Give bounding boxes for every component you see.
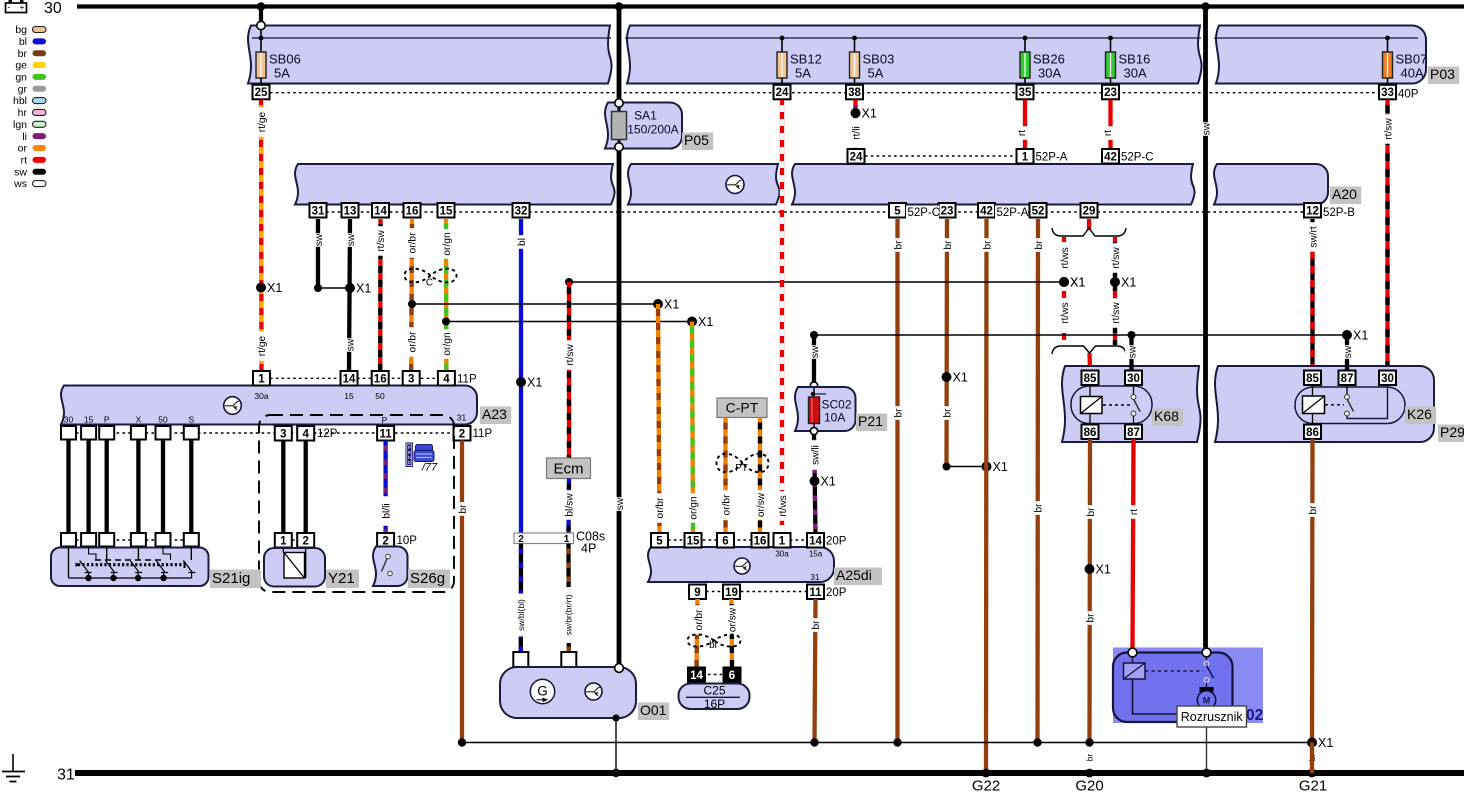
clock icon on A20 [726, 176, 744, 194]
svg-text:23: 23 [1104, 87, 1117, 99]
svg-text:br: br [982, 240, 993, 250]
svg-text:br: br [1308, 505, 1319, 515]
relay K68 coil [1081, 397, 1103, 414]
pin 4 of A23 12P [297, 426, 314, 441]
pin 24 of P03 [774, 85, 791, 100]
node junction rail30/SA1 [615, 2, 624, 11]
wire rt/li SB03 to A20 pin24 [853, 100, 857, 149]
wire br A20 pin5 [895, 219, 899, 743]
svg-text:87: 87 [1127, 427, 1140, 439]
svg-text:X1: X1 [1121, 276, 1136, 290]
pin of S21ig [156, 533, 171, 547]
wire rt/sw pin29 branch [1113, 237, 1117, 345]
svg-text:or/gn: or/gn [442, 232, 453, 255]
svg-text:or/br: or/br [408, 232, 419, 254]
pin 24 of A20 52P-A [848, 149, 865, 164]
svg-text:or/gn: or/gn [689, 496, 700, 519]
svg-text:rt: rt [1129, 509, 1140, 515]
svg-text:31: 31 [57, 767, 75, 784]
A25di bottom pin leader [706, 591, 807, 593]
svg-text:rt/sw: rt/sw [1111, 247, 1122, 269]
svg-text:sw/br(br/rt): sw/br(br/rt) [564, 594, 574, 635]
fuse box P03 band segment 3 [1216, 26, 1426, 84]
node junction br A23 pin2 [458, 738, 466, 746]
label K26 [1405, 407, 1436, 425]
C25 pin leader [708, 674, 722, 676]
pin of S21ig [99, 533, 114, 547]
pin 6 of A25di top [717, 533, 734, 548]
svg-text:sw: sw [314, 233, 325, 246]
node junction pin23 wire end [943, 463, 951, 471]
svg-text:SB12: SB12 [790, 52, 822, 67]
label P05 [682, 133, 713, 151]
node junction G20 on rail31 [1085, 769, 1094, 778]
svg-text:1: 1 [280, 535, 287, 547]
svg-text:X1: X1 [356, 282, 371, 296]
svg-text:bl: bl [517, 238, 528, 246]
svg-text:20P: 20P [826, 536, 847, 548]
svg-text:sw/li: sw/li [810, 445, 821, 465]
pin 16 of A23 top [372, 371, 389, 386]
svg-text:sw: sw [810, 345, 821, 358]
wire starter to rail31 [1206, 722, 1208, 773]
wire rt/ws SB12 pin24 to A25di pin1 [780, 100, 784, 533]
Y21 pin leader [292, 539, 297, 541]
svg-text:14: 14 [343, 373, 356, 385]
svg-text:30: 30 [1381, 373, 1394, 385]
svg-text:14: 14 [809, 535, 822, 547]
pin 2 of S26g 10P [377, 533, 394, 548]
label P29 [1438, 425, 1464, 443]
label C-PT [717, 398, 767, 418]
svg-text:30A: 30A [1038, 66, 1061, 81]
svg-text:9: 9 [694, 587, 700, 599]
svg-text:Y21: Y21 [328, 570, 355, 587]
svg-text:32: 32 [515, 205, 528, 217]
svg-text:C25: C25 [703, 684, 725, 698]
pin 3 of A23 12P [275, 426, 292, 441]
relay K26 coil [1303, 396, 1325, 414]
pin 86 of K68 [1082, 425, 1099, 440]
pin 19 of A25di bottom [723, 585, 740, 600]
wire or/br A25di pin9 to C25 [697, 599, 698, 668]
fuse SB07 40A [1385, 36, 1390, 41]
svg-text:52P-A: 52P-A [997, 207, 1029, 219]
svg-text:24: 24 [850, 151, 863, 163]
svg-text:52P-B: 52P-B [1323, 207, 1355, 219]
svg-text:150/200A: 150/200A [627, 123, 678, 137]
svg-text:bg: bg [15, 24, 27, 36]
connector band A20 segment 1 [295, 164, 615, 205]
svg-text:X1: X1 [267, 281, 282, 295]
wire or/br C-PT to A25di pin6 [723, 418, 727, 534]
node X1 on K68 pin86 wire [1085, 564, 1095, 574]
label A23 [480, 407, 511, 425]
pin 5 of A25di top [651, 533, 668, 548]
wire ground link y742 [462, 742, 1312, 744]
svg-text:rt/sw: rt/sw [1383, 118, 1394, 140]
wire br A23 pin2 to ground link [460, 441, 464, 743]
S21ig pin row leader [76, 539, 185, 541]
svg-text:S26g: S26g [410, 570, 445, 587]
svg-text:rt/ws: rt/ws [1060, 302, 1071, 324]
svg-text:40A: 40A [1401, 66, 1424, 81]
clock icon on A23 [224, 397, 242, 415]
node junction br A20 pin5 [893, 738, 901, 746]
node junction rail30/starter [1201, 2, 1210, 11]
svg-text:P21: P21 [858, 413, 883, 429]
node X1 on sw/li wire [810, 476, 820, 486]
svg-text:2: 2 [382, 535, 388, 547]
svg-text:br: br [1034, 503, 1045, 513]
A23 bottom pin row leader [76, 432, 455, 434]
svg-text:or/br: or/br [655, 497, 666, 519]
svg-text:52P-A: 52P-A [1036, 152, 1068, 164]
svg-text:X1: X1 [1096, 563, 1111, 577]
fuse box P03 band segment 2 [627, 26, 1202, 84]
pin 32 of A20 [513, 203, 530, 218]
svg-text:10A: 10A [824, 411, 845, 425]
pin 1 of A23 top [253, 371, 270, 386]
wire stub rail30 to P03 [259, 7, 263, 23]
svg-text:/77: /77 [421, 462, 438, 474]
svg-text:rt/ws: rt/ws [1060, 247, 1071, 269]
label O01 [638, 703, 669, 721]
node junction SC02 sw wire [810, 331, 818, 339]
svg-text:sw: sw [1127, 345, 1138, 358]
fuse SB16 30A [1108, 36, 1113, 41]
wire rt/sw A20 pin14 to A23 pin16 [378, 219, 383, 371]
alternator O01 [500, 667, 636, 718]
svg-text:33: 33 [1381, 87, 1394, 99]
svg-text:15: 15 [687, 535, 700, 547]
svg-text:X: X [136, 415, 142, 425]
svg-text:4: 4 [443, 373, 450, 385]
wire br to G21 [1310, 743, 1314, 774]
svg-text:16P: 16P [704, 697, 725, 711]
solenoid valve Y21 [264, 548, 325, 587]
starter motor M02 [1113, 653, 1233, 723]
wire or/br X1 to A25di pin5 [658, 304, 660, 533]
pin 85 of K68 [1082, 371, 1099, 386]
svg-text:br: br [943, 408, 954, 418]
wire or/gn X1 to A25di pin15 [692, 322, 693, 534]
wire link pin31 to pin13 wire [318, 287, 350, 289]
pin 31 of A20 [310, 203, 327, 218]
svg-text:+: + [20, 2, 25, 12]
pin 2 of Y21 [297, 533, 314, 548]
connector band A20 segment 3 [792, 164, 1195, 205]
svg-text:br: br [1034, 240, 1045, 250]
svg-text:2: 2 [518, 534, 524, 545]
svg-text:52: 52 [1032, 205, 1045, 217]
svg-text:P: P [382, 415, 388, 425]
svg-text:42: 42 [980, 205, 993, 217]
svg-text:C: C [426, 278, 433, 289]
battery symbol [6, 1, 27, 12]
svg-text:11: 11 [380, 428, 393, 440]
svg-text:sw/bl(bl): sw/bl(bl) [516, 599, 526, 631]
wire rt SB16 to A20 pin42 [1108, 100, 1112, 149]
fuse SB06 5A [259, 36, 264, 41]
pin 6 of C25 [724, 668, 741, 683]
relay carrier band K68 [1062, 366, 1201, 442]
svg-text:3: 3 [280, 428, 286, 440]
svg-text:30a: 30a [254, 391, 268, 401]
relay carrier band P29 [1215, 366, 1434, 442]
wire rt/ge P03 pin25 to A23 pin1 [259, 100, 264, 371]
svg-text:4: 4 [302, 428, 309, 440]
svg-text:X1: X1 [1070, 276, 1085, 290]
node terminal 30 on P03 [257, 21, 265, 29]
node X1 end of y282 link [1059, 277, 1069, 287]
wire link y335 SC02 to K68/K26 [814, 334, 1347, 336]
pin 2 of A23 11P [454, 426, 471, 441]
connector band A20 segment 4 [1214, 164, 1328, 205]
svg-text:19: 19 [725, 587, 738, 599]
starter contact [1145, 670, 1203, 672]
svg-text:02: 02 [1246, 707, 1263, 724]
svg-text:11P: 11P [473, 428, 493, 440]
svg-text:11: 11 [809, 587, 822, 599]
svg-text:87: 87 [1341, 373, 1354, 385]
svg-text:SB06: SB06 [269, 52, 301, 67]
pin 4 of A23 top [438, 371, 455, 386]
svg-text:O01: O01 [640, 702, 667, 718]
svg-text:X1: X1 [1318, 736, 1333, 750]
pin 3 of A23 top [403, 371, 420, 386]
node X1 end of ground link [1307, 738, 1317, 748]
node starter B+ terminal [1202, 648, 1211, 657]
svg-text:5: 5 [894, 205, 901, 217]
svg-text:or/br: or/br [721, 494, 732, 516]
wire rail 30 [77, 4, 1464, 8]
node junction or/br wire [408, 300, 416, 308]
svg-text:sw: sw [345, 338, 356, 351]
svg-text:or/sw: or/sw [756, 492, 767, 517]
svg-text:sw: sw [1343, 345, 1354, 358]
node X1 on bl wire [516, 377, 526, 387]
svg-text:12: 12 [1306, 205, 1319, 217]
svg-text:br: br [1086, 613, 1097, 623]
pin 14 of A23 top [341, 371, 358, 386]
pin of S21ig [61, 533, 76, 547]
wire br K68 pin86 to ground [1087, 439, 1092, 743]
wiring group dashed outline [259, 415, 454, 592]
svg-text:2: 2 [459, 428, 465, 440]
fuse SB12 5A [780, 36, 785, 41]
svg-text:br: br [893, 240, 904, 250]
svg-text:sw/rt: sw/rt [1308, 226, 1319, 248]
svg-text:X1: X1 [1353, 329, 1368, 343]
pin 16 of A20 [404, 203, 421, 218]
pin of S21ig [131, 533, 146, 547]
svg-text:rt/li: rt/li [851, 126, 862, 140]
svg-text:86: 86 [1084, 427, 1097, 439]
svg-text:10P: 10P [397, 535, 418, 547]
twisted pair symbol C [405, 269, 457, 283]
svg-text:ws: ws [13, 178, 27, 190]
svg-text:sw: sw [615, 497, 626, 510]
svg-text:P29: P29 [1440, 424, 1464, 440]
pin 35 of P03 [1017, 85, 1034, 100]
pin 11 of A23 [377, 426, 394, 441]
pin 87 of K26 [1339, 371, 1356, 386]
svg-text:23: 23 [941, 205, 954, 217]
svg-text:1: 1 [779, 535, 786, 547]
svg-text:sw: sw [14, 166, 27, 178]
svg-text:Rozrusznik: Rozrusznik [1181, 710, 1244, 724]
wire rt SB26 to A20 pin1 [1023, 100, 1027, 149]
svg-text:X1: X1 [527, 376, 542, 390]
svg-text:X1: X1 [953, 371, 968, 385]
svg-text:24: 24 [776, 87, 789, 99]
svg-text:30: 30 [64, 415, 74, 425]
svg-text:lgn: lgn [13, 119, 27, 131]
svg-text:or/br: or/br [407, 331, 418, 353]
svg-text:1: 1 [1022, 151, 1029, 163]
connector band A20 segment 2 [628, 164, 780, 205]
wire sw SA1 to O01 B+ [617, 147, 622, 668]
clock icon on O01 [585, 683, 602, 700]
node junction br A20 pin52 [1033, 738, 1041, 746]
svg-text:86: 86 [1306, 427, 1319, 439]
pin 87 of K68 [1125, 425, 1142, 440]
pin of A23 bottom (ignition) [184, 426, 199, 440]
svg-text:bl: bl [709, 640, 717, 651]
svg-text:ge: ge [15, 60, 27, 72]
pin 42 of A20 52P-C [1102, 149, 1119, 164]
generator symbol G [530, 679, 554, 703]
pin 30 of K26 [1379, 371, 1396, 386]
node X1 on rt/ws branch [1059, 277, 1069, 287]
svg-text:11P: 11P [457, 374, 477, 386]
wire rt K68 pin87 to starter [1133, 439, 1134, 649]
node junction rt/sw Ecm wire [565, 278, 573, 286]
pin 42 of A20 [978, 203, 995, 218]
svg-text:SB16: SB16 [1119, 52, 1151, 67]
node junction br A25di pin11 [810, 738, 818, 746]
label K68 [1152, 409, 1183, 427]
pin of A23 bottom (ignition) [156, 426, 171, 440]
wire sw/rt A20 pin12 to K26 pin85 [1310, 219, 1314, 371]
svg-text:br: br [18, 48, 28, 60]
pin 52 of A20 [1030, 203, 1047, 218]
node SC02 top terminal [810, 382, 817, 389]
wire br A20 pin52 [1035, 219, 1040, 743]
pin 9 of A25di bottom [689, 585, 706, 600]
svg-text:31: 31 [811, 573, 820, 582]
svg-text:P03: P03 [1430, 66, 1455, 82]
svg-text:15: 15 [344, 391, 354, 401]
svg-text:X1: X1 [664, 298, 679, 312]
svg-text:Ecm: Ecm [554, 461, 584, 478]
wire br A20 pin23 [944, 219, 949, 467]
svg-text:rt/ge: rt/ge [257, 335, 268, 356]
node SA1 bottom [615, 143, 623, 151]
A20 top pin leader [865, 155, 1016, 157]
wire sw A23 pin3 to Y21 pin1 [281, 441, 285, 534]
svg-text:PT: PT [735, 463, 748, 474]
pin of A23 bottom (ignition) [81, 426, 96, 440]
node SC02 bottom terminal [810, 427, 817, 434]
P03 pin leader dotted line [270, 92, 1379, 94]
svg-text:A23: A23 [482, 406, 507, 422]
svg-text:SB07: SB07 [1396, 52, 1428, 67]
pin 38 of P03 [846, 85, 863, 100]
node junction G21 on rail31 [1308, 769, 1317, 778]
cable sheath split under pin29 [1052, 228, 1126, 236]
pin 1 of A20 52P-A [1017, 149, 1034, 164]
svg-text:15: 15 [440, 205, 453, 217]
svg-text:15: 15 [84, 415, 94, 425]
wire br A25di pin11 to ground link [815, 599, 816, 743]
ignition switch S21ig [51, 548, 209, 587]
wire or/gn A20 pin15 to A23 pin4 [444, 219, 449, 371]
svg-text:50: 50 [158, 415, 168, 425]
svg-text:rt: rt [1017, 130, 1028, 136]
svg-text:bl/sw: bl/sw [565, 493, 576, 517]
svg-text:16: 16 [406, 205, 419, 217]
label S21ig [210, 570, 261, 589]
svg-text:A25di: A25di [836, 567, 872, 583]
svg-text:38: 38 [848, 87, 861, 99]
wire sw K68 pin30 tap [1129, 335, 1133, 371]
wire br K26 pin86 to ground G21 [1310, 439, 1315, 743]
wire rail 31 [75, 770, 1464, 776]
wire bl A20 pin32 to C08s pin2 [519, 219, 523, 533]
relay K26 outline [1295, 387, 1405, 424]
label Y21 [326, 570, 359, 589]
svg-text:2: 2 [302, 535, 308, 547]
svg-text:16: 16 [374, 373, 387, 385]
wire sw A20 pin31 [316, 219, 320, 288]
A23 top pin leader [270, 377, 455, 379]
svg-text:-: - [8, 2, 11, 12]
wire rt A20 pin29 stub [1087, 219, 1091, 230]
node X1 on rt/ge wire [256, 283, 266, 293]
svg-text:35: 35 [1019, 87, 1032, 99]
relay K68 contact [1133, 385, 1135, 395]
svg-text:4P: 4P [581, 542, 596, 556]
pin 15 of A25di top [685, 533, 702, 548]
icon gear selector /77 [406, 443, 439, 474]
clock icon on A25di [734, 558, 750, 574]
svg-text:sw: sw [346, 233, 357, 246]
svg-text:5: 5 [656, 535, 663, 547]
pin 16 of A25di top [752, 533, 769, 548]
svg-text:6: 6 [729, 670, 735, 682]
A20 bottom pin leader [326, 211, 1304, 213]
fuse SA1 150/200A [618, 107, 621, 143]
pin 1 of Y21 [275, 533, 292, 548]
pin 29 of A20 [1081, 203, 1098, 218]
pin of A23 bottom (ignition) [131, 426, 146, 440]
svg-text:or/br: or/br [694, 609, 705, 631]
wire O01 case to rail31 [615, 718, 617, 773]
node SA1 top [615, 99, 623, 107]
pin 14 of A25di top [807, 533, 824, 548]
wire sw rail30 to starter M02 [1203, 7, 1208, 650]
label A25di [834, 568, 882, 586]
svg-text:3: 3 [408, 373, 414, 385]
svg-text:hr: hr [18, 107, 28, 119]
svg-text:20P: 20P [826, 587, 847, 599]
label P21 [856, 414, 887, 432]
svg-text:13: 13 [344, 205, 357, 217]
pin 30 of K68 [1125, 371, 1142, 386]
svg-text:or/sw: or/sw [727, 607, 738, 632]
